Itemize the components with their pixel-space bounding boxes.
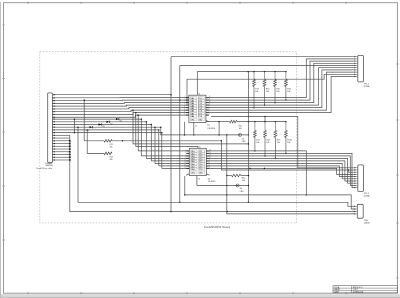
wire LED D5 row (160, 122, 249, 136)
U1 pin stubs left (184, 96, 189, 116)
VCC rail vertical (248, 72, 250, 203)
wire vertical x227 to CN3 (226, 135, 354, 214)
svg-text:(2x5M): (2x5M) (364, 86, 370, 88)
resistor R17 label (256, 139, 259, 144)
U2 pin 20 label (199, 147, 201, 149)
U2 pin stubs left (184, 150, 189, 170)
resistor R12 label (110, 156, 113, 161)
U2 pin1 pin19 marks (186, 174, 210, 175)
wire jog pin10 row to row15 (74, 118, 76, 132)
wire rail gnd to CN3 pin3 (351, 211, 354, 213)
connector JP1-1 label (364, 83, 370, 88)
ground bus wire pins 18-25 (55, 135, 71, 160)
wires comb down to U2 inputs (137, 114, 189, 168)
svg-text:10k: 10k (287, 142, 290, 144)
title block (333, 286, 397, 294)
wire pin1 to JP1-1 pin1 (55, 57, 354, 95)
connector CN1 parallel port DB25 body (48, 93, 53, 163)
svg-text:10: 10 (195, 126, 197, 128)
U2 reference label (208, 178, 216, 183)
svg-text:LED: LED (242, 141, 246, 143)
LED D6 label (240, 188, 244, 193)
svg-text:74LS244: 74LS244 (208, 181, 216, 183)
svg-text:D1: D1 (120, 121, 122, 123)
resistor R15 label (276, 89, 279, 94)
connector CN1 label (36, 163, 53, 170)
svg-text:20: 20 (198, 94, 200, 96)
svg-text:D2: D2 (110, 123, 112, 125)
svg-text:DATE:: DATE: (334, 290, 340, 293)
wire LED D6 row (197, 185, 249, 187)
wire vertical net at x171 (170, 57, 172, 212)
svg-text:D-sub25F(m) cable: D-sub25F(m) cable (36, 168, 52, 170)
resistor R13 label (255, 89, 258, 94)
resistor R14 (263, 71, 266, 106)
wire rail VCC B to U2 pin 20 (136, 113, 198, 149)
resistor R11 (83, 99, 222, 142)
op IC U1 74LS244 body (189, 95, 206, 122)
svg-text:10k: 10k (276, 91, 279, 93)
resistor R16 label (287, 89, 290, 94)
diode D4 (87, 126, 93, 132)
resistor R15 (274, 71, 277, 104)
U2 OE wire to rail (184, 176, 186, 196)
resistor R12 (87, 130, 112, 155)
branch dots and vertical taps (132, 66, 188, 204)
svg-text:LED: LED (240, 191, 244, 193)
svg-text:USB A: USB A (364, 222, 370, 225)
wire row 168.7 dots (249, 168, 265, 170)
dashed module outline (DIP32 housing) (40, 52, 297, 223)
wires CN1 pins 10-13 with diodes (55, 119, 161, 127)
wire jog to JP1-2 pin3 (347, 169, 353, 172)
LED D6 (236, 184, 239, 187)
svg-text:10k: 10k (242, 180, 245, 182)
U1 pin 10 GND (193, 122, 197, 135)
resistor R22 label (242, 178, 245, 183)
U1 pin1 pin19 marks (206, 120, 209, 121)
svg-text:10k: 10k (266, 142, 269, 144)
wires CN1 pins 2-9 to U1 inputs (52, 98, 189, 118)
connector JP1-2 body (358, 165, 364, 192)
svg-text:D-sub25F/DIP32 Housing: D-sub25F/DIP32 Housing (204, 227, 231, 229)
U1 reference label (207, 125, 215, 130)
wire R11 net to JP1-2 (221, 141, 353, 170)
connector CN1 pins (52, 94, 55, 160)
svg-text:10k: 10k (110, 159, 113, 161)
resistor R18 label (266, 139, 269, 144)
wires U2 outputs to JP1-2 (206, 151, 353, 196)
diode D1 (116, 118, 122, 123)
wire tap to JP1-1 row5 (180, 65, 354, 67)
resistor R19 label (277, 139, 280, 144)
wires U1 outputs to JP1-1 (206, 59, 354, 113)
diode D3 (99, 123, 105, 128)
connector CN3 pins (353, 205, 358, 215)
resistor R22 (226, 174, 249, 177)
svg-text:10k: 10k (239, 128, 242, 130)
wire row to JP1-2 pin1 (211, 116, 354, 168)
resistor R17 (254, 121, 257, 152)
U1 pin stubs right (206, 96, 211, 116)
resistor R21 (206, 120, 286, 123)
svg-text:10k: 10k (110, 146, 113, 148)
connector JP1-1 body (358, 55, 364, 82)
connector JP1-1 pins (354, 56, 358, 77)
wires CN1 pins 14-15 (55, 129, 162, 133)
wire rail OE to CN3 (185, 195, 354, 209)
svg-text:10k: 10k (256, 142, 259, 144)
resistor R19 (274, 121, 277, 159)
svg-text:D3: D3 (102, 126, 104, 128)
LED D5 label (242, 139, 246, 144)
svg-text:10k: 10k (266, 91, 269, 93)
resistor R18 (264, 121, 267, 157)
module outline label (204, 227, 231, 229)
resistor R11 label (110, 144, 113, 149)
svg-text:20: 20 (199, 147, 201, 149)
svg-text:OE2: OE2 (199, 120, 203, 122)
svg-text:(2x5M): (2x5M) (364, 196, 370, 198)
svg-text:10k: 10k (255, 91, 258, 93)
U1 pin 20 VCC (197, 72, 200, 96)
wire stepped tap to JP1-1 row9 (187, 74, 354, 102)
resistor R14 label (266, 89, 269, 94)
resistor R16 (285, 71, 288, 101)
wire rail VCC A (133, 110, 249, 145)
VCC rail top (197, 71, 286, 73)
wire ground bus down to rail (70, 160, 351, 212)
resistor R110 label (287, 139, 291, 144)
U2 pin stubs right (206, 150, 211, 170)
connector JP1-2 label (364, 193, 370, 198)
svg-text:74LS244: 74LS244 (207, 128, 215, 130)
connector CN3 body (357, 204, 363, 218)
resistor R110 (285, 121, 288, 154)
svg-text:10k: 10k (277, 142, 280, 144)
U2 pin 10 GND (197, 176, 200, 186)
LED D5 (238, 133, 241, 136)
svg-text:10: 10 (198, 179, 200, 181)
svg-text:10k: 10k (287, 91, 290, 93)
wire rail to CN3 pin1 (77, 126, 354, 206)
svg-text:OE2: OE2 (199, 173, 203, 175)
svg-text:OE1: OE1 (191, 173, 195, 175)
op IC U2 74LS244 body (189, 148, 206, 175)
diode D2 (107, 121, 113, 126)
resistor R21 label (239, 125, 242, 130)
connector JP1-2 pins (354, 167, 358, 188)
svg-text:19-FEB-2004: 19-FEB-2004 (353, 291, 364, 293)
resistor R13 (253, 71, 256, 109)
connector CN3 label (364, 220, 370, 225)
svg-text:OE1: OE1 (191, 120, 195, 122)
